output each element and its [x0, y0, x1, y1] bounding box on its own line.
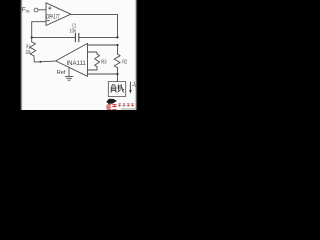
- svg-text:1: 1: [134, 84, 136, 88]
- svg-text:R2: R2: [122, 59, 127, 65]
- svg-text:10n: 10n: [69, 29, 76, 35]
- svg-text:IN: IN: [26, 9, 30, 14]
- svg-text:10k: 10k: [25, 50, 31, 56]
- svg-text:R3: R3: [101, 59, 106, 65]
- svg-text:INA111: INA111: [67, 60, 87, 67]
- svg-text:Ref: Ref: [57, 70, 66, 76]
- svg-text:OPA177: OPA177: [46, 14, 60, 21]
